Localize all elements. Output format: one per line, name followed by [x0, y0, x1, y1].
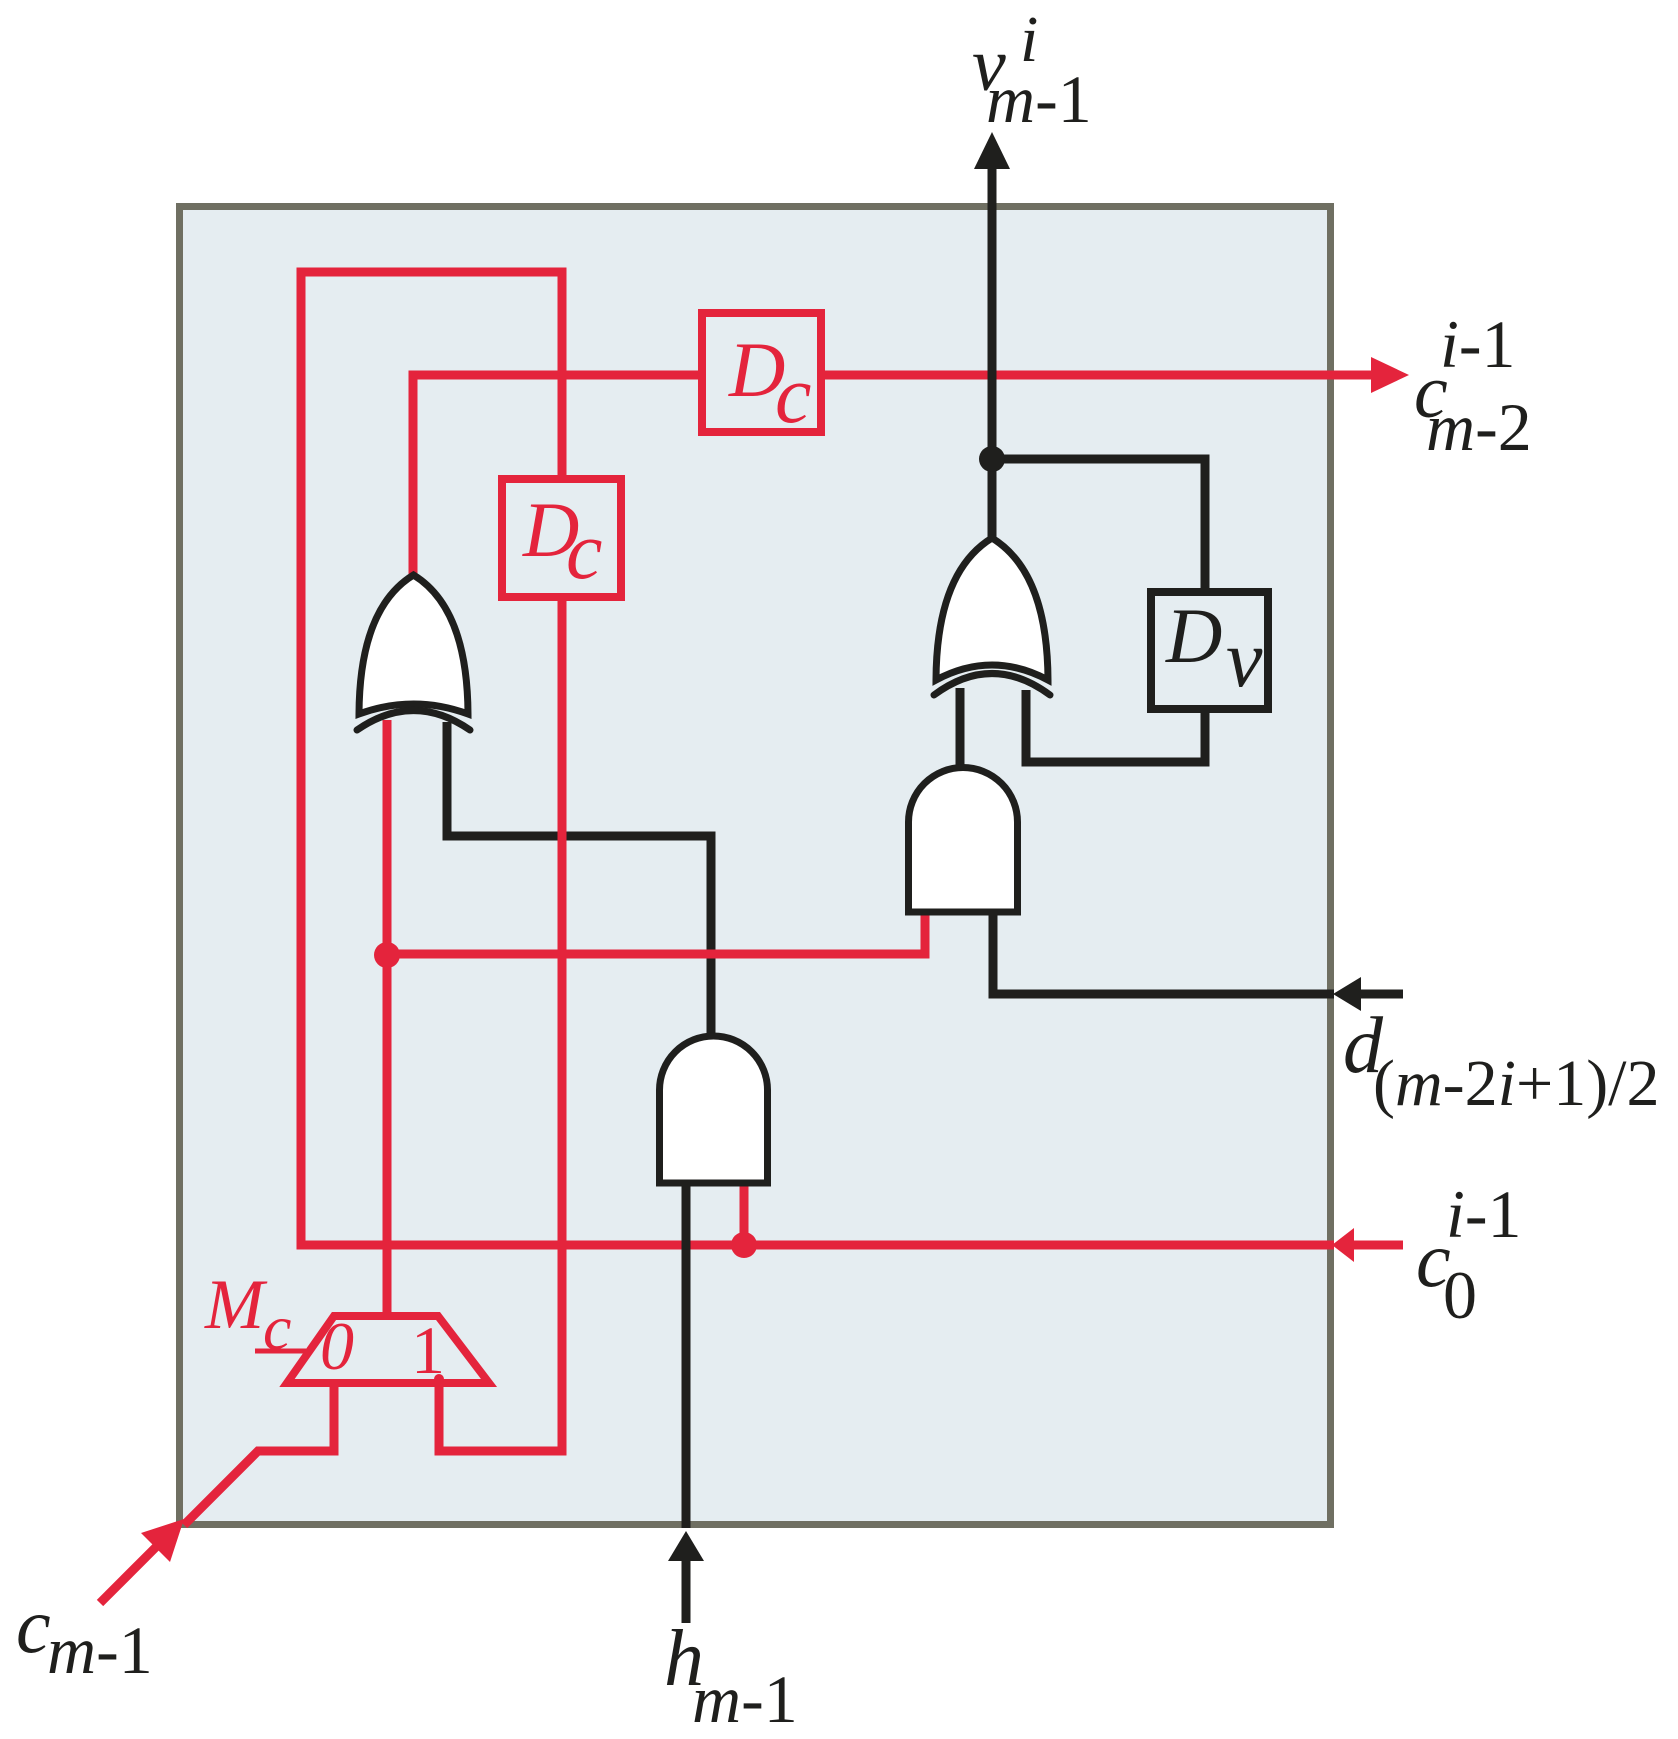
delay element Dc1 [702, 313, 821, 440]
delay element Dc2 [502, 479, 621, 597]
svg-text:m-1: m-1 [986, 61, 1092, 137]
mux Mc select line [255, 1349, 306, 1354]
mux Mc pin labels 0 and 1 [320, 1308, 445, 1388]
node junction on v net [979, 446, 1005, 472]
wire branch from v net to Dv input [992, 459, 1205, 592]
node stub where mux input-1 leg meets trapezoid [434, 1374, 444, 1384]
wire AND1 output to XOR1 right input [447, 722, 711, 1036]
svg-text:c: c [263, 1292, 291, 1363]
svg-text:m-1: m-1 [692, 1661, 798, 1737]
svg-text:D: D [1165, 592, 1222, 679]
wire mux Mc output up to XOR1 left input [383, 720, 392, 1315]
wire mux Mc input 0 leg to c m-1 entry [184, 1385, 334, 1525]
wire AND2 output to XOR2 left input [956, 688, 965, 768]
svg-text:c: c [775, 349, 811, 440]
arrow input h m-1 (external bottom) [682, 1560, 691, 1623]
svg-text:0: 0 [320, 1308, 354, 1384]
svg-text:c: c [566, 505, 602, 596]
wire Dc1 output to c m-2 output port [821, 371, 1372, 380]
arrowhead output c m-2 [1371, 357, 1409, 393]
node junction on mux output net [374, 942, 400, 968]
wire net c0(i-1): right edge across to left, up, over to Dc2 input [301, 272, 1334, 1245]
svg-text:0: 0 [1443, 1257, 1477, 1333]
and gate AND2 (upper) [909, 767, 1018, 912]
mux Mc trapezoid body [287, 1316, 489, 1383]
svg-text:i-1: i-1 [1440, 306, 1516, 382]
label output c i-1 m-2 (top right) [1414, 306, 1532, 465]
label output v i m-1 (top) [972, 3, 1092, 137]
wire branch from mux output net to AND2 left input [387, 905, 925, 954]
svg-text:(m-2i+1)/2: (m-2i+1)/2 [1373, 1047, 1660, 1120]
wire AND1 left input from h m-1 entry [682, 1178, 691, 1528]
svg-text:m-2: m-2 [1426, 389, 1532, 465]
arrow input d (external right) [1361, 990, 1403, 999]
label input c i-1 0 (right lower) [1416, 1176, 1522, 1333]
svg-text:m-1: m-1 [47, 1612, 153, 1688]
wire XOR2 output to v m-1 output port [988, 168, 997, 545]
wire Dc2 output down to mux Mc input 1 leg [439, 597, 562, 1451]
arrowhead output v m-1 [974, 132, 1010, 169]
arrow input c m-1 (diagonal, external) [100, 1546, 157, 1603]
node junction on c0 net [731, 1232, 757, 1258]
delay element Dv [1151, 592, 1268, 709]
label mux select M c [204, 1266, 291, 1363]
label input h m-1 (bottom) [664, 1615, 798, 1737]
xor gate XOR1 (carry path) [357, 575, 470, 730]
arrow input c0(i-1) (external right) [1354, 1241, 1403, 1250]
xor gate XOR2 (v path) [934, 538, 1050, 695]
wire AND1 right input stub to c0 net [740, 1178, 749, 1245]
svg-text:v: v [1226, 613, 1263, 704]
svg-text:i-1: i-1 [1446, 1176, 1522, 1252]
label input d (m-2i+1)/2 (right) [1343, 1002, 1660, 1120]
wire AND2 right input from d entry [993, 908, 1334, 994]
svg-text:M: M [204, 1266, 268, 1344]
label input c m-1 (bottom left) [16, 1582, 153, 1688]
wire Dv output back to XOR2 right input [1026, 690, 1205, 762]
wire XOR1 output to Dc1 input [413, 375, 702, 578]
svg-text:1: 1 [411, 1312, 445, 1388]
svg-text:c: c [16, 1582, 51, 1669]
and gate AND1 (lower) [660, 1036, 768, 1183]
module boundary box [180, 207, 1331, 1525]
